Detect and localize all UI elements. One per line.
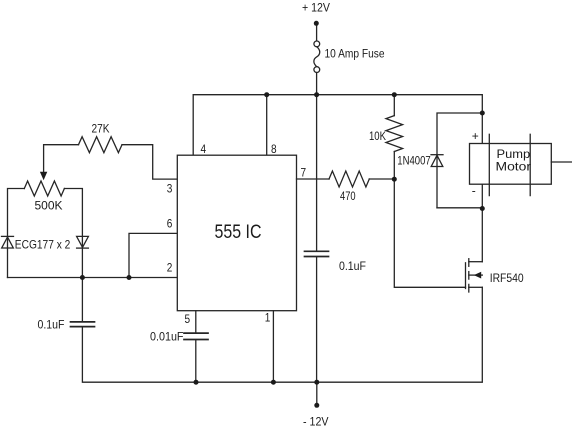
wire pot right lead down xyxy=(64,189,82,278)
svg-text:500K: 500K xyxy=(35,199,63,213)
wire pin 5 down xyxy=(195,311,197,333)
capacitor C1 0.1uF plates xyxy=(71,322,95,327)
svg-text:IRF540: IRF540 xyxy=(490,271,524,285)
body arrow xyxy=(474,272,481,279)
svg-text:470: 470 xyxy=(340,189,356,203)
wire 27K right lead to pin 3 xyxy=(122,145,177,179)
svg-text:6: 6 xyxy=(167,217,173,231)
node 10K bus xyxy=(392,92,397,97)
node pin1 bus xyxy=(271,380,276,385)
capacitor C2 0.01uF plates xyxy=(184,333,208,339)
wire pot left lead down xyxy=(8,189,25,278)
resistor R3 10K xyxy=(386,95,403,180)
resistor R1 27K xyxy=(79,137,123,153)
wire pin 6 branch xyxy=(129,233,177,277)
svg-text:1: 1 xyxy=(265,311,271,325)
svg-text:0.1uF: 0.1uF xyxy=(339,259,366,273)
svg-text:ECG177 x 2: ECG177 x 2 xyxy=(15,238,71,252)
node pin8 bus xyxy=(264,92,269,97)
IC U1 555 body xyxy=(177,155,296,311)
diode D2 ECG177 right xyxy=(77,236,89,248)
wire C1 to bottom bus xyxy=(82,327,196,382)
channel segment middle xyxy=(468,272,470,280)
diode D1 ECG177 left xyxy=(2,236,14,248)
wire gate branch xyxy=(394,179,465,287)
svg-text:1N4007: 1N4007 xyxy=(397,154,431,168)
wire pin 2 horizontal xyxy=(8,277,178,279)
terminal dot -12V xyxy=(314,403,319,408)
svg-text:- 12V: - 12V xyxy=(303,415,329,429)
svg-text:0.1uF: 0.1uF xyxy=(38,318,65,332)
diode D3 1N4007 xyxy=(431,155,443,167)
channel segment bottom xyxy=(468,284,470,292)
svg-text:0.01uF: 0.01uF xyxy=(150,330,184,344)
node pin6 pin2 xyxy=(127,275,132,280)
svg-text:10 Amp Fuse: 10 Amp Fuse xyxy=(325,47,385,61)
wire pin 1 down xyxy=(272,311,274,383)
svg-text:-: - xyxy=(472,184,476,198)
motor shaft line xyxy=(551,161,572,163)
wire C2 to bottom bus xyxy=(195,340,197,382)
wire +12V terminal to fuse xyxy=(316,24,318,41)
svg-text:7: 7 xyxy=(301,165,307,179)
svg-text:2: 2 xyxy=(167,261,173,275)
node center rail bus xyxy=(314,380,319,385)
node fuse bus xyxy=(314,92,319,97)
wire C3 to bottom bus xyxy=(316,257,318,382)
body stub xyxy=(469,274,483,276)
channel segment top xyxy=(468,259,470,267)
node C1 pin2 xyxy=(80,275,85,280)
svg-text:+ 12V: + 12V xyxy=(302,1,330,15)
node C2 bus xyxy=(194,380,199,385)
wire fuse to top bus xyxy=(316,73,318,95)
potentiometer R2 500K xyxy=(24,181,64,196)
wire 27K left lead to pot wiper xyxy=(44,145,79,173)
svg-text:+: + xyxy=(472,129,479,143)
terminal dot +12V xyxy=(314,21,319,26)
gate bar xyxy=(465,263,467,289)
potentiometer wiper arrow xyxy=(40,172,47,181)
svg-text:27K: 27K xyxy=(92,122,110,136)
wire diode D3 bottom link xyxy=(437,207,482,209)
wire top bus +12V rail xyxy=(193,95,482,156)
transistor Q1 IRF540 xyxy=(466,259,483,292)
node gate 470 10K xyxy=(392,177,397,182)
capacitor C3 0.1uF plates xyxy=(305,251,329,256)
motor brush line left xyxy=(488,134,490,195)
resistor R4 470 xyxy=(297,171,395,187)
node diode top xyxy=(480,111,485,116)
wire pin 8 to top bus xyxy=(266,95,268,156)
drain stub xyxy=(469,261,483,263)
motor brush line right xyxy=(529,134,531,195)
svg-text:8: 8 xyxy=(271,142,277,156)
node motor minus xyxy=(480,206,485,211)
wire motor minus to drain xyxy=(481,184,483,262)
fuse F1 10A xyxy=(314,41,320,73)
svg-text:10K: 10K xyxy=(369,129,386,143)
source stub xyxy=(469,286,483,288)
svg-text:555 IC: 555 IC xyxy=(215,222,262,243)
svg-text:4: 4 xyxy=(201,142,207,156)
svg-text:3: 3 xyxy=(167,182,173,196)
wire diode D3 top link xyxy=(437,113,482,208)
wire -12V drop xyxy=(316,382,318,403)
wire bottom bus xyxy=(196,287,482,382)
svg-text:Motor: Motor xyxy=(496,159,532,173)
motor M1 body xyxy=(470,144,552,185)
wire capacitor C1 branch down xyxy=(81,278,83,322)
svg-text:5: 5 xyxy=(185,312,191,326)
wire center rail from top bus xyxy=(316,95,318,251)
